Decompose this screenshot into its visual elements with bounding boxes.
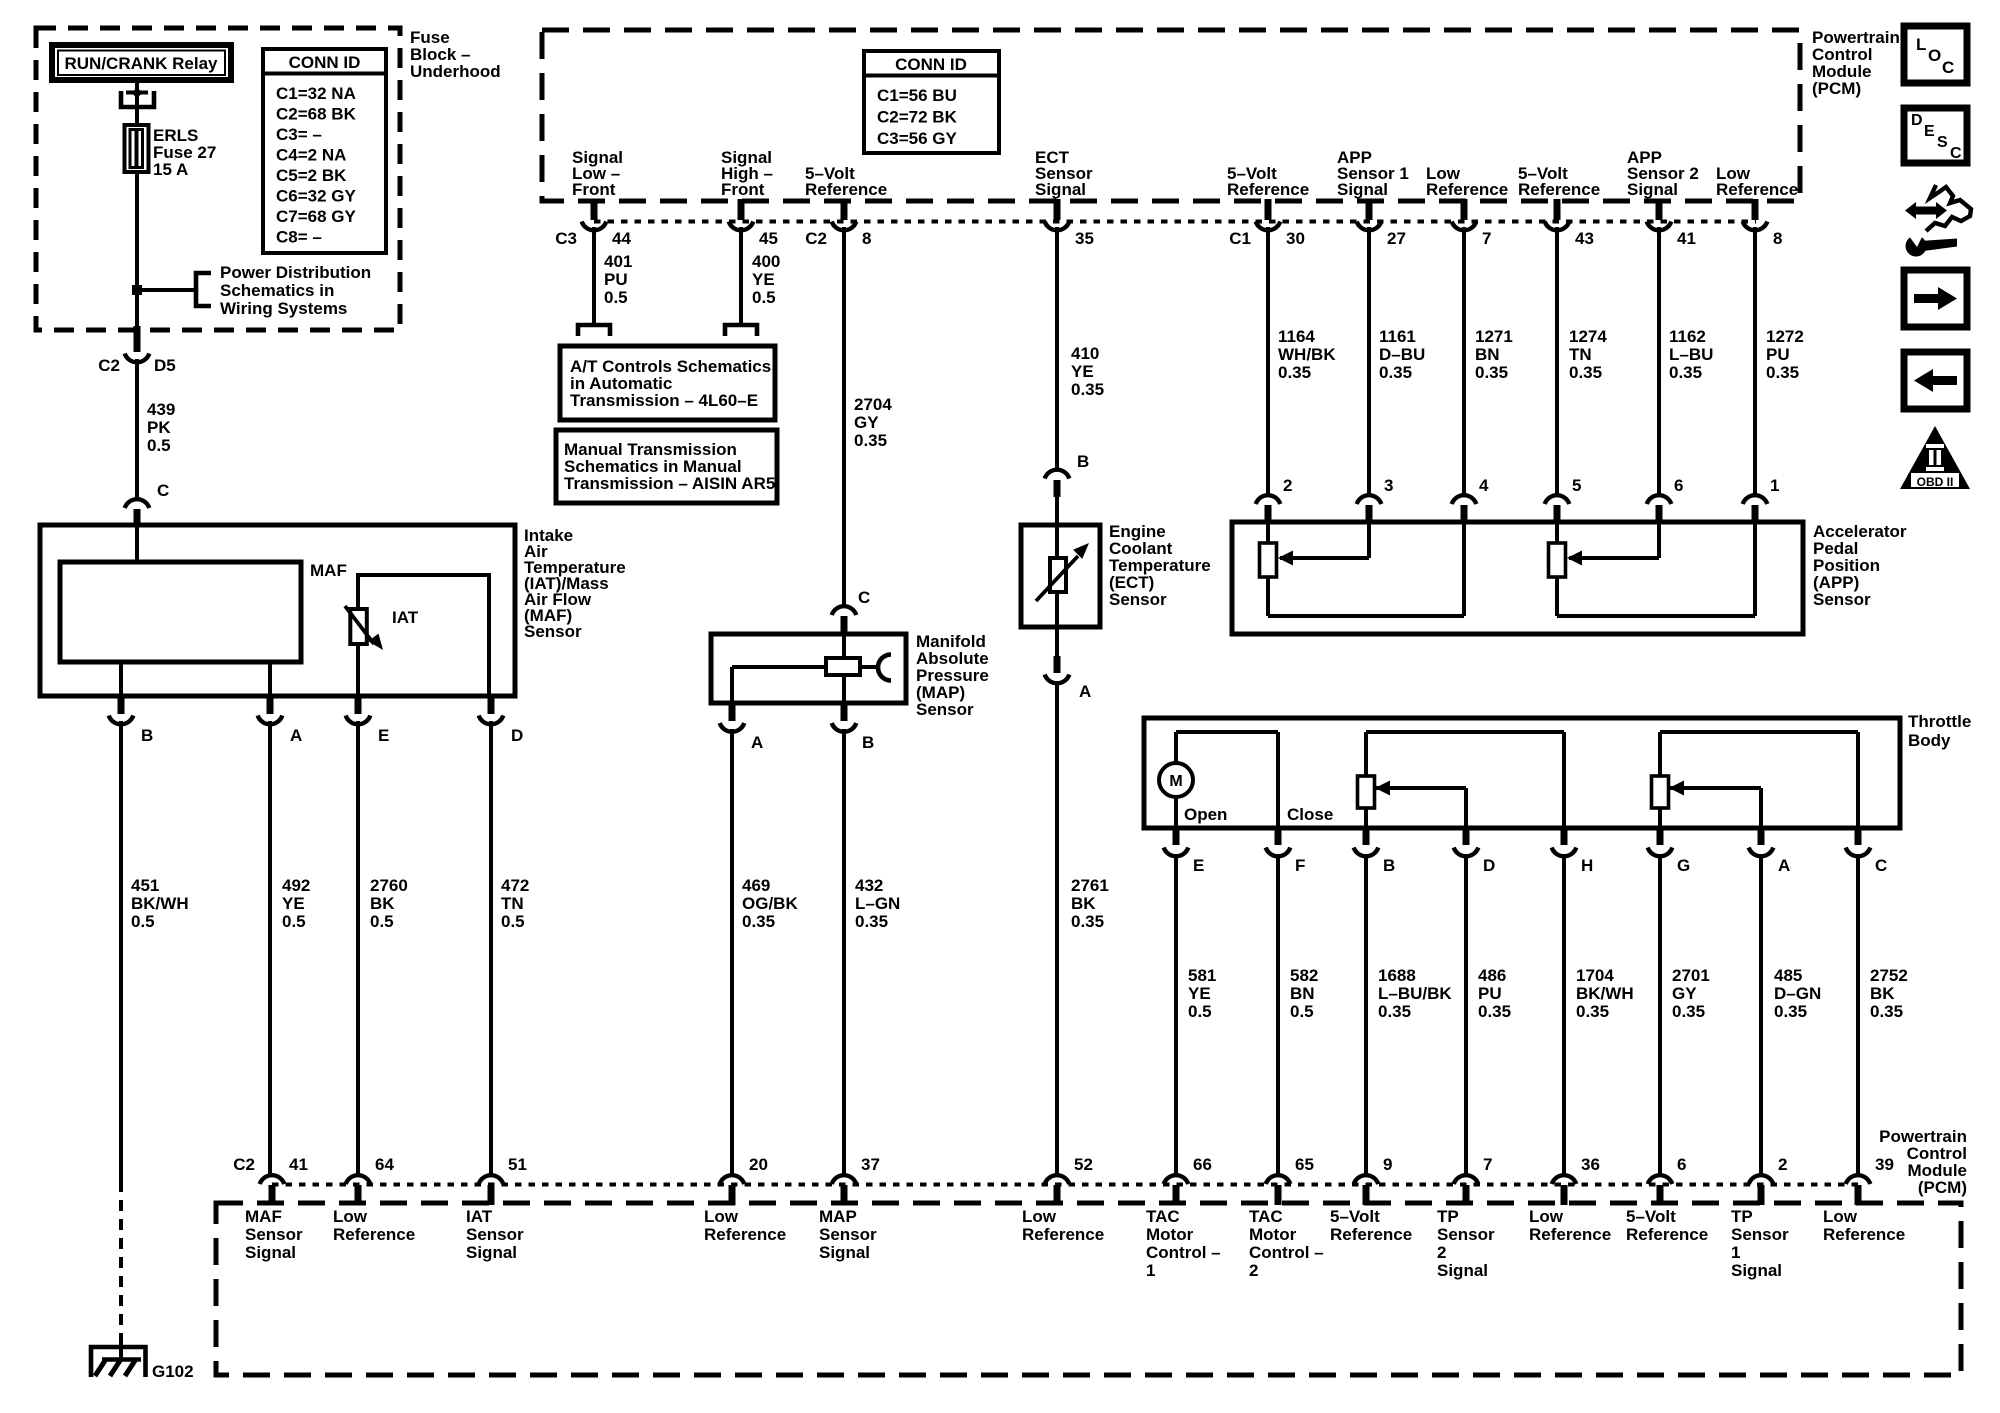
svg-text:A: A [290,726,302,745]
svg-text:Signal: Signal [1627,180,1678,199]
svg-text:C: C [1875,856,1887,875]
svg-text:B: B [862,733,874,752]
connector APP pin 2 [1256,476,1293,524]
svg-text:C1=56 BU: C1=56 BU [877,86,957,105]
svg-text:M: M [1169,773,1182,790]
connector throttle body pin D [1454,828,1496,875]
PCM pin label Low Reference 2 [1716,164,1798,199]
actuator box Throttle Body [1144,718,1900,828]
svg-text:YE: YE [752,270,775,289]
svg-text:472: 472 [501,876,529,895]
svg-text:4: 4 [1479,476,1489,495]
svg-text:Reference: Reference [333,1225,415,1244]
svg-text:Signal: Signal [1731,1261,1782,1280]
PCM pin label Low Reference 1 [1426,164,1508,199]
wire fuse to connector C2-D5 [135,172,139,332]
svg-text:41: 41 [289,1155,308,1174]
svg-text:401: 401 [604,252,632,271]
svg-text:Low: Low [1823,1207,1858,1226]
wire label 582 BN 0.5 [1290,966,1318,1021]
svg-text:C6=32 GY: C6=32 GY [276,187,357,206]
svg-text:486: 486 [1478,966,1506,985]
PCM bottom pin label Low Reference [704,1207,786,1244]
PCM bottom pin label TAC Motor Control – 1 [1146,1207,1221,1280]
svg-text:15 A: 15 A [153,160,188,179]
thermistor IAT [345,606,419,650]
svg-text:BK/WH: BK/WH [1576,984,1634,1003]
potentiometer APP sensor 1 [1260,524,1465,616]
svg-text:E: E [378,726,389,745]
svg-text:0.35: 0.35 [1672,1002,1705,1021]
connector throttle body pin H [1552,828,1594,875]
connector PCM top pin 44 at x=594 [555,199,631,248]
svg-text:Sensor: Sensor [1813,590,1871,609]
svg-text:64: 64 [375,1155,394,1174]
svg-text:C2: C2 [98,356,120,375]
sensor box Manifold Absolute Pressure MAP [711,634,906,703]
wire label 1271 BN 0.35 [1475,327,1513,382]
svg-text:TN: TN [501,894,524,913]
PCM pin label Signal High - Front [721,148,773,199]
svg-text:Control –: Control – [1249,1243,1324,1262]
wire label 472 TN 0.5 [501,876,529,931]
fuse F27 ERLS Fuse 27 15 A [125,125,217,179]
svg-text:BN: BN [1475,345,1500,364]
wire 2761 BK ECT to PCM 52 [1055,681,1059,1175]
PCM bottom pin label IAT Sensor Signal [466,1207,524,1262]
svg-text:5–Volt: 5–Volt [1626,1207,1676,1226]
svg-text:Low: Low [1022,1207,1057,1226]
PCM bottom pin label Low Reference [333,1207,415,1244]
svg-text:Throttle: Throttle [1908,712,1971,731]
potentiometer TP sensor 1 [1652,732,1859,828]
wire label 2752 BK 0.35 [1870,966,1908,1021]
connector table CONN ID fuse block [263,49,386,253]
wire label 400 YE 0.5 [752,252,780,307]
powertrain control module PCM dashed enclosure bottom [216,1203,1961,1375]
wire MAF inner block to pin A [268,662,272,698]
wire label 469 OG/BK 0.35 [742,876,798,931]
wire MAF inner block to pin B [119,662,123,698]
wire branch to power distribution note [137,273,211,306]
svg-text:439: 439 [147,400,175,419]
label Intake Air Temperature (IAT)/Mass Air Flow (MAF) Sensor [524,526,626,641]
thermistor ECT [1036,525,1089,627]
svg-text:6: 6 [1677,1155,1686,1174]
svg-text:BK: BK [1870,984,1895,1003]
wire 1161 D–BU from PCM to APP sensor [1367,227,1371,495]
svg-text:Signal: Signal [466,1243,517,1262]
wire 401 PU from pin 44 [592,227,596,327]
svg-text:1: 1 [1731,1243,1740,1262]
PCM bottom pin label Low Reference [1823,1207,1905,1244]
PCM bottom pin label MAF Sensor Signal [245,1207,303,1262]
wire 1164 WH/BK from PCM to APP sensor [1266,227,1270,495]
svg-text:7: 7 [1483,1155,1492,1174]
wire label 1161 D–BU 0.35 [1379,327,1425,382]
svg-text:30: 30 [1286,229,1305,248]
wire label 401 PU 0.5 [604,252,632,307]
sensor box Engine Coolant Temperature ECT [1021,525,1100,627]
icon OBD II triangle [1900,426,1970,489]
svg-text:Sensor: Sensor [466,1225,524,1244]
PCM pin label APP Sensor 2 Signal [1627,148,1699,199]
svg-text:L: L [1916,35,1926,54]
PCM bottom connector dotted link line [272,1183,1858,1187]
wire 451 BK/WH MAF signal to ground [119,721,123,1181]
svg-text:Control –: Control – [1146,1243,1221,1262]
svg-text:0.5: 0.5 [1290,1002,1314,1021]
wire label 492 YE 0.5 [282,876,310,931]
svg-text:2760: 2760 [370,876,408,895]
svg-text:0.5: 0.5 [1188,1002,1212,1021]
svg-text:TAC: TAC [1146,1207,1180,1226]
svg-text:A: A [751,733,763,752]
svg-text:39: 39 [1875,1155,1894,1174]
svg-text:YE: YE [1188,984,1211,1003]
svg-text:C2=72 BK: C2=72 BK [877,108,958,127]
svg-text:Sensor: Sensor [245,1225,303,1244]
PCM bottom pin label TAC Motor Control – 2 [1249,1207,1324,1280]
svg-text:52: 52 [1074,1155,1093,1174]
svg-text:Sensor: Sensor [1109,590,1167,609]
svg-text:410: 410 [1071,344,1099,363]
svg-text:7: 7 [1482,229,1491,248]
wire label 439 PK 0.5 [147,400,175,455]
connector APP pin 5 [1545,476,1582,524]
svg-text:Low: Low [1529,1207,1564,1226]
svg-text:PK: PK [147,418,171,437]
svg-text:0.5: 0.5 [370,912,394,931]
IAT sub-box [358,575,489,698]
svg-text:Signal: Signal [1035,180,1086,199]
wire label 1688 L–BU/BK 0.35 [1378,966,1452,1021]
relay RUN/CRANK Relay [49,42,234,83]
svg-text:WH/BK: WH/BK [1278,345,1336,364]
svg-text:GY: GY [1672,984,1697,1003]
svg-text:45: 45 [759,229,778,248]
connector PCM bottom pin 20 [720,1155,768,1205]
sensor box Intake Air Temperature IAT / Mass Air Flow MAF [40,525,515,696]
svg-text:Sensor: Sensor [819,1225,877,1244]
svg-text:C: C [1950,145,1962,162]
svg-text:L–BU/BK: L–BU/BK [1378,984,1452,1003]
svg-text:43: 43 [1575,229,1594,248]
connector PCM top pin 27 at x=1369 [1357,199,1406,248]
label Accelerator Pedal Position (APP) Sensor [1813,522,1907,609]
svg-text:GY: GY [854,413,879,432]
svg-text:3: 3 [1384,476,1393,495]
connector PCM bottom pin 64 [346,1155,395,1205]
wire 400 YE from pin 45 [739,227,743,327]
svg-text:1: 1 [1770,476,1779,495]
connector PCM bottom pin 36 [1552,1155,1600,1205]
svg-text:6: 6 [1674,476,1683,495]
svg-text:D–GN: D–GN [1774,984,1821,1003]
svg-text:Wiring Systems: Wiring Systems [220,299,347,318]
svg-text:Reference: Reference [1227,180,1309,199]
svg-text:PU: PU [1766,345,1790,364]
svg-text:C3: C3 [555,229,577,248]
svg-text:581: 581 [1188,966,1216,985]
svg-text:L–BU: L–BU [1669,345,1713,364]
sensor box Accelerator Pedal Position APP [1232,522,1803,634]
relay contact symbol [121,83,154,125]
wire 486 PU throttle body to PCM [1464,854,1468,1175]
connector MAP pin A [720,703,764,752]
connector APP pin 6 [1647,476,1684,524]
svg-text:0.35: 0.35 [1478,1002,1511,1021]
svg-text:S: S [1937,134,1948,151]
wire label 451 BK/WH 0.5 [131,876,189,931]
svg-text:CONN ID: CONN ID [289,53,361,72]
svg-text:Motor: Motor [1146,1225,1194,1244]
PCM bottom pin label 5–Volt Reference [1330,1207,1412,1244]
svg-text:0.35: 0.35 [1669,363,1702,382]
svg-text:Reference: Reference [805,180,887,199]
connector throttle body pin A [1749,828,1791,875]
wire 432 L-GN MAP B to PCM 37 [842,729,846,1175]
svg-text:0.35: 0.35 [1475,363,1508,382]
svg-text:9: 9 [1383,1155,1392,1174]
svg-text:B: B [1383,856,1395,875]
svg-text:Low: Low [333,1207,368,1226]
svg-text:PU: PU [604,270,628,289]
wire 492 YE MAF pin A to PCM 41 [268,721,272,1175]
PCM pin label Signal Low - Front [572,148,623,199]
svg-text:Front: Front [572,180,616,199]
svg-text:C3= –: C3= – [276,125,322,144]
motor M TAC [1159,732,1333,828]
svg-text:20: 20 [749,1155,768,1174]
connector PCM top pin 30 at x=1268 [1229,199,1305,248]
PCM pin label 5-Volt Reference [805,164,887,199]
svg-text:B: B [1077,452,1089,471]
svg-text:2: 2 [1437,1243,1446,1262]
svg-text:Reference: Reference [1022,1225,1104,1244]
wire 472 TN IAT pin D to PCM 51 [489,721,493,1175]
svg-text:0.35: 0.35 [742,912,775,931]
PCM pin label APP Sensor 1 Signal [1337,148,1409,199]
svg-text:B: B [141,726,153,745]
connector ECT pin B [1045,452,1090,527]
connector throttle body pin G [1648,828,1691,875]
wire 581 YE throttle body to PCM [1174,854,1178,1175]
connector PCM bottom pin 6 [1648,1155,1687,1205]
svg-text:D: D [1911,112,1923,129]
svg-text:(PCM): (PCM) [1812,79,1861,98]
svg-text:0.35: 0.35 [1071,912,1104,931]
connector PCM bottom pin 52 [1045,1155,1093,1205]
svg-text:C2: C2 [805,229,827,248]
svg-text:Reference: Reference [1626,1225,1708,1244]
svg-text:Schematics in: Schematics in [220,281,334,300]
svg-text:0.35: 0.35 [1569,363,1602,382]
junction on fuse wire [132,285,142,295]
svg-text:YE: YE [1071,362,1094,381]
label Engine Coolant Temperature (ECT) Sensor [1109,522,1211,609]
potentiometer TP sensor 2 [1358,732,1565,828]
svg-text:E: E [1193,856,1204,875]
svg-text:TP: TP [1437,1207,1459,1226]
svg-text:0.35: 0.35 [1774,1002,1807,1021]
svg-text:Open: Open [1184,805,1227,824]
wire label 581 YE 0.5 [1188,966,1216,1021]
connector MAP pin B [832,703,875,752]
svg-text:G102: G102 [152,1362,194,1381]
connector C into MAF sensor [125,481,170,527]
wire label 2704 GY 0.35 [854,395,892,450]
MAF inner block [60,562,301,662]
svg-text:0.35: 0.35 [1378,1002,1411,1021]
svg-text:C2=68 BK: C2=68 BK [276,105,357,124]
svg-text:C: C [1942,58,1954,77]
svg-text:582: 582 [1290,966,1318,985]
connector PCM bottom pin 7 [1454,1155,1493,1205]
connector PCM top pin 8 at x=844 [805,199,871,248]
wire label 485 D–GN 0.35 [1774,966,1821,1021]
svg-text:0.5: 0.5 [501,912,525,931]
svg-text:0.35: 0.35 [1870,1002,1903,1021]
svg-text:C: C [858,588,870,607]
svg-text:CONN ID: CONN ID [895,55,967,74]
connector PCM bottom pin 66 [1164,1155,1212,1205]
svg-text:Reference: Reference [704,1225,786,1244]
wire 1704 BK/WH throttle body to PCM [1562,854,1566,1175]
connector PCM bottom pin 37 [832,1155,880,1205]
connector PCM bottom pin 51 [479,1155,527,1205]
wire 1272 PU from PCM to APP sensor [1753,227,1757,495]
svg-text:Low: Low [704,1207,739,1226]
wire 2701 GY throttle body to PCM [1658,854,1662,1175]
svg-text:Motor: Motor [1249,1225,1297,1244]
connector throttle body pin C [1846,828,1888,875]
PCM top connector dotted link line [594,220,1756,224]
wire label 2760 BK 0.5 [370,876,408,931]
svg-text:C5=2 BK: C5=2 BK [276,166,347,185]
svg-text:0.5: 0.5 [147,436,171,455]
wire label 410 YE 0.35 [1071,344,1104,399]
label Manifold Absolute Pressure (MAP) Sensor [916,632,989,719]
svg-text:0.35: 0.35 [1766,363,1799,382]
svg-text:IAT: IAT [466,1207,493,1226]
svg-text:D5: D5 [154,356,176,375]
wire 1688 L–BU/BK throttle body to PCM [1364,854,1368,1175]
svg-text:G: G [1677,856,1690,875]
note Power Distribution Schematics in Wiring Systems [220,263,371,318]
note box Manual Transmission Schematics [556,430,777,503]
svg-text:BK/WH: BK/WH [131,894,189,913]
svg-text:L–GN: L–GN [855,894,900,913]
wire label 1272 PU 0.35 [1766,327,1804,382]
svg-text:MAF: MAF [245,1207,282,1226]
wire label 1704 BK/WH 0.35 [1576,966,1634,1021]
svg-text:1274: 1274 [1569,327,1607,346]
PCM pin label ECT Sensor Signal [1035,148,1093,199]
wire 2704 GY 5-volt reference from pin 8 [842,227,846,606]
svg-text:1272: 1272 [1766,327,1804,346]
svg-text:YE: YE [282,894,305,913]
wire 485 D–GN throttle body to PCM [1759,854,1763,1175]
svg-text:492: 492 [282,876,310,895]
svg-text:44: 44 [612,229,631,248]
wire label 486 PU 0.35 [1478,966,1511,1021]
connector MAP pin C [832,588,871,636]
svg-text:2: 2 [1778,1155,1787,1174]
svg-text:MAF: MAF [310,561,347,580]
PCM bottom pin label 5–Volt Reference [1626,1207,1708,1244]
connector PCM top pin 8 at x=1755 [1743,199,1783,248]
svg-text:1162: 1162 [1669,327,1706,346]
connector APP pin 1 [1743,476,1780,524]
svg-text:BK: BK [1071,894,1096,913]
svg-text:Power Distribution: Power Distribution [220,263,371,282]
svg-text:Sensor: Sensor [1437,1225,1495,1244]
svg-text:66: 66 [1193,1155,1212,1174]
svg-text:37: 37 [861,1155,880,1174]
connector ECT pin A [1045,627,1092,701]
svg-text:Signal: Signal [1337,180,1388,199]
wire label 1164 WH/BK 0.35 [1278,327,1336,382]
wire 582 BN throttle body to PCM [1276,854,1280,1175]
svg-text:Transmission – AISIN AR5: Transmission – AISIN AR5 [564,474,775,493]
svg-text:C4=2 NA: C4=2 NA [276,146,346,165]
svg-text:51: 51 [508,1155,527,1174]
svg-text:BN: BN [1290,984,1315,1003]
svg-text:Underhood: Underhood [410,62,501,81]
svg-text:A: A [1778,856,1790,875]
svg-text:Reference: Reference [1823,1225,1905,1244]
svg-text:1: 1 [1146,1261,1155,1280]
svg-text:0.5: 0.5 [131,912,155,931]
svg-text:451: 451 [131,876,159,895]
svg-text:2: 2 [1249,1261,1258,1280]
connector MAF pin A [258,696,303,745]
ground G102 [89,1345,194,1381]
note box A/T Controls Schematics [560,346,775,420]
svg-text:1688: 1688 [1378,966,1416,985]
svg-text:Close: Close [1287,805,1333,824]
svg-text:1164: 1164 [1278,327,1315,346]
svg-text:0.35: 0.35 [1278,363,1311,382]
svg-text:TP: TP [1731,1207,1753,1226]
svg-text:C: C [157,481,169,500]
svg-text:F: F [1295,856,1305,875]
wire C into MAF inner block [135,525,139,564]
connector PCM bottom pin 65 [1266,1155,1314,1205]
svg-text:Sensor: Sensor [916,700,974,719]
svg-text:0.5: 0.5 [282,912,306,931]
connector throttle body pin B [1354,828,1396,875]
svg-text:Sensor: Sensor [524,622,582,641]
PCM pin label 5-Volt Reference 3 [1518,164,1600,199]
connector PCM top pin 35 at x=1057 [1045,199,1094,248]
svg-text:C1=32 NA: C1=32 NA [276,84,356,103]
svg-text:(PCM): (PCM) [1918,1178,1967,1197]
svg-text:Reference: Reference [1716,180,1798,199]
svg-text:0.35: 0.35 [855,912,888,931]
connector throttle body pin E [1164,828,1205,875]
svg-text:1271: 1271 [1475,327,1513,346]
wire 1162 L–BU from PCM to APP sensor [1657,227,1661,495]
PCM bottom pin label Low Reference [1022,1207,1104,1244]
icon left arrow box [1904,352,1967,409]
svg-text:H: H [1581,856,1593,875]
svg-text:41: 41 [1677,229,1696,248]
svg-text:Reference: Reference [1330,1225,1412,1244]
svg-text:Body: Body [1908,731,1951,750]
connector throttle body pin F [1266,828,1306,875]
